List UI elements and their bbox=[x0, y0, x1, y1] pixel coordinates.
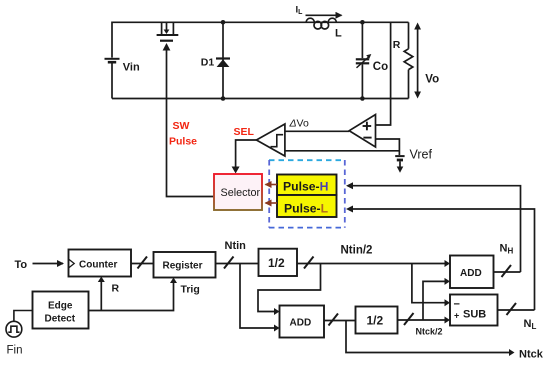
wire: Register output Ntin bus with slash bbox=[216, 263, 259, 265]
divider block 1/2 (first) bbox=[259, 249, 298, 276]
battery Vin long plate bbox=[105, 58, 120, 60]
svg-text:Ntck/2: Ntck/2 bbox=[416, 327, 443, 337]
Selector block bbox=[214, 174, 262, 210]
svg-text:Selector: Selector bbox=[221, 187, 261, 199]
wire: Ntck output arrow bbox=[346, 321, 509, 353]
capacitor Co bbox=[356, 22, 372, 98]
wire: bottom rail (ground return) bbox=[112, 98, 409, 100]
wire: U2 minus input to Vref bbox=[376, 139, 400, 155]
wire: Ntck/2 branch up to ADD1 lower input bbox=[423, 281, 445, 320]
svg-text:Ntck: Ntck bbox=[519, 349, 544, 361]
svg-text:Register: Register bbox=[163, 261, 203, 272]
svg-text:Trig: Trig bbox=[181, 284, 200, 296]
svg-text:−: − bbox=[454, 299, 460, 311]
svg-text:1/2: 1/2 bbox=[268, 256, 285, 270]
svg-text:SUB: SUB bbox=[463, 309, 486, 321]
battery Vin short plate bbox=[108, 61, 116, 64]
node: Co top junction bbox=[360, 20, 365, 25]
svg-text:SW: SW bbox=[173, 120, 190, 132]
wire: ADD1 output NH bus with slash bbox=[494, 271, 521, 273]
wire: NH feedback into Pulse-H bbox=[351, 186, 521, 272]
wire: Ntin/2 Z-branch to ADD2 upper input bbox=[258, 264, 321, 312]
inductor L bbox=[306, 18, 337, 29]
svg-text:SEL: SEL bbox=[234, 126, 255, 138]
divider block 1/2 (second) bbox=[356, 307, 398, 334]
wire: Ntin/2 branch down to SUB top input bbox=[412, 264, 445, 303]
svg-text:NL: NL bbox=[524, 318, 537, 331]
node: Co bottom junction bbox=[360, 96, 365, 101]
adder ADD2 (bottom) bbox=[280, 306, 325, 338]
svg-text:Edge: Edge bbox=[48, 301, 73, 312]
Vo double-headed arrow bbox=[414, 23, 421, 99]
dashed pulse-generator box bbox=[269, 160, 345, 228]
svg-text:Ntin: Ntin bbox=[225, 240, 247, 252]
svg-text:Vref: Vref bbox=[410, 148, 433, 162]
svg-text:Vo: Vo bbox=[425, 74, 439, 86]
Fin clock source symbol bbox=[6, 311, 33, 338]
svg-text:ΔVo: ΔVo bbox=[289, 118, 309, 130]
wire: To input arrow into Counter bbox=[33, 263, 64, 265]
svg-text:1/2: 1/2 bbox=[367, 314, 384, 328]
node: D1 bottom junction bbox=[221, 96, 226, 101]
svg-text:D1: D1 bbox=[201, 57, 215, 69]
wire: Counter to Register with bus slash bbox=[131, 263, 154, 265]
node: D1 top junction bbox=[221, 20, 226, 25]
Pulse-L block bbox=[277, 195, 337, 217]
wire: U2 output to U1 input (dVo) bbox=[285, 130, 349, 132]
wire: Ntck/2 bus with slash to SUB bottom input bbox=[398, 319, 445, 321]
wire: Edge Detect output to Trig bbox=[89, 283, 174, 311]
op-amp U2 (error comparator, right) bbox=[349, 115, 375, 148]
wire: U1 minus input to Vref node bbox=[285, 150, 400, 152]
wire: SUB output NL bus with slash bbox=[498, 309, 535, 311]
svg-text:Pulse-H: Pulse-H bbox=[283, 180, 328, 194]
svg-text:R: R bbox=[112, 283, 120, 295]
svg-text:Pulse: Pulse bbox=[169, 136, 197, 148]
Vref source symbol bbox=[395, 156, 404, 173]
svg-text:ADD: ADD bbox=[460, 268, 482, 279]
wire: NL feedback into Pulse-L bbox=[351, 209, 535, 310]
wire: Ntin branch down to ADD2 lower input bbox=[240, 264, 274, 329]
wire: Vo feedback sense line down to comparator + bbox=[376, 22, 391, 125]
adder ADD1 (top right) bbox=[450, 256, 494, 289]
svg-text:Ntin/2: Ntin/2 bbox=[341, 245, 373, 257]
svg-text:Counter: Counter bbox=[79, 259, 117, 270]
diode D1 bbox=[216, 22, 230, 98]
svg-text:Vin: Vin bbox=[123, 62, 140, 74]
wire: Pulse-L to Selector (maroon arrow) bbox=[266, 202, 278, 204]
Edge Detect block bbox=[33, 292, 89, 329]
svg-text:R: R bbox=[393, 39, 401, 51]
svg-text:+: + bbox=[454, 311, 459, 321]
wire: top rail Vin+ to Vo node bbox=[112, 21, 409, 23]
wire: left rail upper (Vin top) bbox=[111, 22, 113, 58]
wire: left rail lower (Vin bottom) bbox=[111, 63, 113, 98]
Counter block with clock triangle bbox=[69, 250, 132, 277]
Pulse-H block bbox=[277, 175, 337, 196]
wire: SEL output to Selector (arrow down) bbox=[236, 140, 257, 168]
svg-text:Fin: Fin bbox=[7, 345, 23, 357]
svg-text:L: L bbox=[335, 28, 342, 40]
svg-text:To: To bbox=[15, 259, 28, 271]
wire: Pulse-H to Selector (maroon arrow) bbox=[266, 184, 278, 186]
op-amp U1 (Schmitt comparator, left) bbox=[256, 124, 285, 156]
Register block bbox=[154, 252, 216, 278]
wire: SW pulse gate drive (arrow up into gate) bbox=[163, 43, 214, 197]
svg-text:Pulse-L: Pulse-L bbox=[284, 202, 329, 216]
svg-text:IL: IL bbox=[296, 5, 304, 17]
subtractor SUB bbox=[450, 295, 498, 326]
wire: Ntin/2 bus with slash to ADD1 top input bbox=[297, 263, 445, 265]
resistor R bbox=[404, 22, 413, 98]
svg-text:Co: Co bbox=[373, 61, 388, 73]
wire: ADD2 output bus with slash into 1/2 (second) bbox=[324, 320, 356, 322]
transistor M1 (switch) bbox=[157, 22, 179, 40]
svg-text:NH: NH bbox=[500, 243, 514, 256]
wire: reset branch up to Counter R bbox=[100, 282, 102, 311]
svg-text:Detect: Detect bbox=[45, 314, 76, 325]
svg-text:ADD: ADD bbox=[290, 318, 312, 329]
